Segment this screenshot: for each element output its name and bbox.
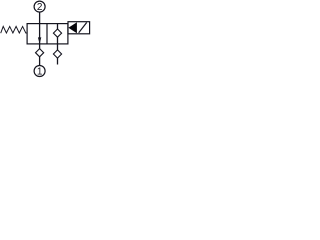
poppet screen diamond (right position) (53, 29, 61, 37)
port circle 1 (34, 66, 45, 77)
flow path line (left position) (39, 24, 41, 44)
svg-text:2: 2 (37, 2, 43, 13)
screen diamond port 1 (36, 49, 44, 57)
wire port 2 to valve (vertical stub) (39, 12, 41, 23)
wire right branch down (57, 44, 59, 65)
flow arrowhead (left position) (38, 37, 41, 44)
position divider (46, 24, 48, 44)
spring (left, return spring) (1, 26, 27, 33)
solenoid coil triangle (filled, pointing left) (68, 22, 77, 33)
blocked path line (right position) (57, 24, 59, 44)
solenoid box (68, 22, 90, 34)
svg-text:1: 1 (37, 67, 43, 78)
wire port 1 (39, 44, 41, 65)
background (0, 0, 92, 79)
screen diamond right branch (53, 50, 61, 58)
port circle 2 (34, 1, 45, 12)
proportional slash (79, 23, 87, 33)
valve body frame (two-position envelope) (27, 24, 68, 44)
